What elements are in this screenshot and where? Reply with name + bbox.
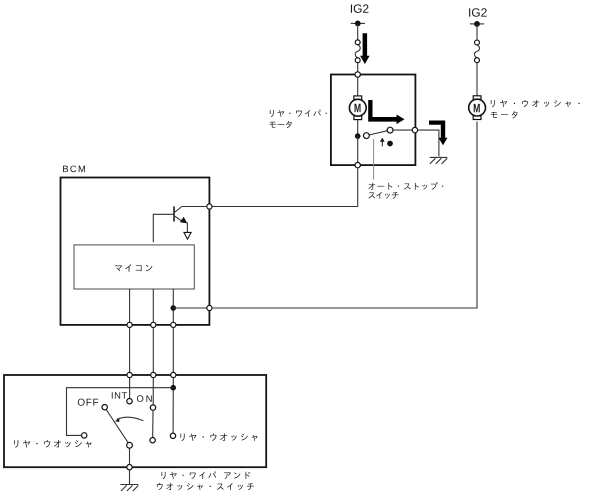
ground (wiper motor) — [430, 157, 448, 164]
label text: ウオッシャ・スイッチ — [157, 483, 254, 490]
node junction to washer output — [171, 305, 177, 311]
transistor Q1 (output) — [174, 206, 207, 239]
label text: スイッチ — [368, 192, 398, 199]
terminal washer right — [170, 433, 175, 438]
node: wire entering wiper box (top) — [355, 72, 360, 77]
label text: M — [355, 104, 361, 112]
node: BCM collector pin — [207, 204, 212, 209]
auto-stop switch contacts and arm — [364, 127, 394, 138]
label text: BCM — [63, 166, 85, 173]
node: BCM washer pin — [207, 305, 212, 310]
node IG2 left tap — [351, 21, 365, 27]
wire motor to auto-stop junction — [357, 120, 359, 137]
wire microcomputer pin 2 — [152, 289, 154, 322]
wire box to ground — [418, 130, 439, 156]
wire to ground — [129, 470, 131, 484]
wire BCM pin1 to switch — [129, 328, 131, 373]
connector pair (right column) — [475, 40, 480, 63]
node: BCM bottom pin 3 — [171, 322, 176, 327]
wire microcomputer pin 3 — [172, 289, 174, 322]
node: switch box top pin 3 — [171, 372, 176, 377]
rear wiper motor assembly box — [331, 75, 416, 166]
wire box top to motor — [357, 77, 359, 96]
wire wiper box to BCM collector pin — [212, 168, 358, 207]
wire BCM pin2 to switch — [152, 328, 154, 373]
node: wire leaving wiper box (right) — [412, 127, 417, 132]
label text: リヤ・ワイパ・ — [270, 110, 327, 118]
wire IG2 right down to connector — [476, 24, 478, 40]
node: wire leaving wiper box (bottom) — [355, 162, 360, 167]
label text: モータ — [491, 111, 518, 118]
label text: INT — [112, 392, 127, 398]
wire connector to washer motor — [476, 63, 478, 96]
contact ON — [150, 405, 155, 410]
label text: オート・ストップ・ — [368, 182, 443, 190]
wire BCM pin3 to switch — [172, 328, 174, 373]
motor M (rear wiper) — [349, 96, 366, 120]
motor M (rear washer) — [469, 96, 486, 120]
wire INT contact — [129, 378, 131, 399]
wire BCM to rear washer motor — [212, 122, 477, 309]
label text: モータ — [269, 121, 291, 128]
current-flow arrow (bent, inside wiper box) — [368, 100, 404, 124]
wire washer net (pin3 down) — [172, 378, 174, 434]
terminal washer left — [82, 433, 87, 438]
terminal below ON — [150, 438, 155, 443]
node junction washer branch — [170, 385, 176, 391]
wire connector to wiper box — [357, 63, 359, 72]
ground (switch) — [120, 485, 138, 492]
wire ON contact stub — [152, 410, 154, 437]
microcomputer box — [74, 245, 194, 289]
label text: リヤ・ウオッシャ — [180, 433, 257, 441]
wire arm contact to box edge — [393, 129, 412, 131]
wire microcomputer pin 1 — [129, 289, 131, 322]
BCM box — [61, 178, 210, 325]
wire ON contact — [152, 378, 154, 405]
wire pivot to box bottom — [129, 448, 131, 464]
contact INT — [127, 399, 132, 404]
connector pair (left column) — [355, 40, 360, 63]
label text: リヤ・ウオッシャ・ — [491, 100, 580, 107]
leader line to auto-stop label — [373, 139, 375, 180]
node: BCM bottom pin 1 — [127, 322, 132, 327]
label text: M — [474, 104, 480, 112]
auto-stop alternate contact (dot) and movement arrow — [380, 138, 393, 147]
current-flow arrow (down, to ground) — [429, 121, 448, 146]
wire IG2 left down to connector — [357, 23, 359, 39]
label text: IG2 — [469, 8, 487, 17]
node: switch box top pin 1 — [127, 372, 132, 377]
node: switch box top pin 2 — [151, 372, 156, 377]
switch pivot — [127, 442, 133, 448]
label text: マイコン — [115, 264, 152, 271]
wire washer branch to left terminal — [67, 388, 174, 436]
wire junction down to box bottom — [357, 136, 359, 162]
rotation arc arrow — [115, 417, 143, 422]
node junction at motor low side — [355, 133, 361, 139]
wire transistor base to microcomputer — [153, 214, 173, 242]
label text: リヤ・ワイパ アンド — [162, 471, 251, 479]
switch arm — [106, 410, 128, 443]
contact OFF — [102, 405, 107, 410]
current-flow arrow (down, at IG2 left) — [360, 33, 370, 64]
node IG2 right tap — [470, 21, 484, 27]
node: switch box bottom pin — [127, 465, 132, 470]
label text: OFF — [78, 399, 98, 406]
label text: リヤ・ウオッシャ — [14, 440, 92, 448]
label text: ON — [137, 395, 152, 402]
label text: IG2 — [351, 4, 369, 13]
node: BCM bottom pin 2 — [151, 322, 156, 327]
rear wiper and washer switch box — [4, 375, 266, 467]
wire junction to BCM right edge — [173, 307, 207, 309]
